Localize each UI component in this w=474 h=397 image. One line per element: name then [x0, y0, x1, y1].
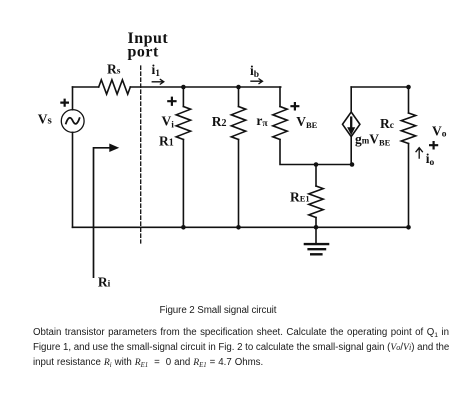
svg-text:ib: ib [250, 63, 259, 80]
svg-text:VBE: VBE [296, 114, 317, 130]
svg-text:Rc: Rc [380, 116, 394, 131]
svg-text:R1: R1 [159, 134, 174, 149]
svg-text:i1: i1 [152, 62, 161, 79]
svg-text:io: io [426, 151, 435, 168]
svg-text:Vs: Vs [38, 111, 53, 126]
svg-text:RE1: RE1 [290, 190, 310, 205]
svg-text:gmVBE: gmVBE [355, 132, 391, 148]
svg-text:Vi: Vi [162, 113, 175, 130]
svg-text:Rs: Rs [107, 62, 121, 77]
svg-text:Vo: Vo [432, 124, 447, 140]
svg-text:port: port [128, 44, 160, 61]
svg-text:rπ: rπ [256, 113, 268, 129]
svg-text:Ri: Ri [98, 274, 111, 289]
svg-text:R2: R2 [212, 114, 227, 129]
